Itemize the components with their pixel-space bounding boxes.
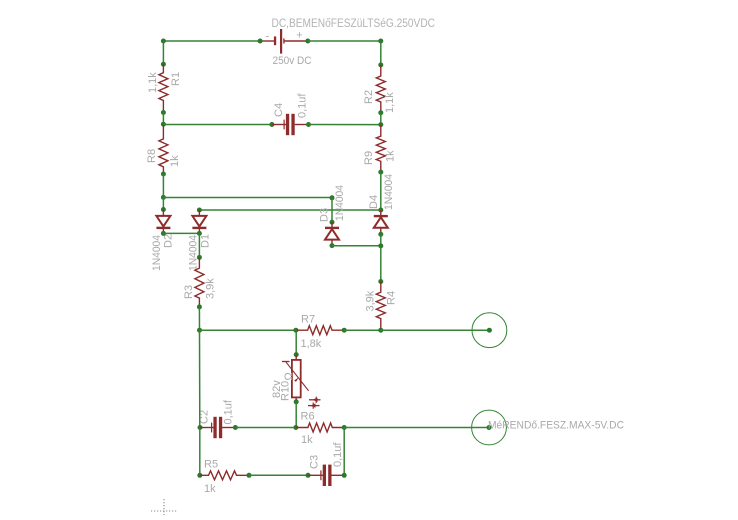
capacitor C3 pins [308,474,344,476]
wire R10 top [295,330,297,354]
diode D2 [156,216,170,229]
svg-text:1k: 1k [385,150,397,162]
wire top-right horizontal [308,40,381,42]
label D2 name [163,234,175,248]
wire R3 to R7 row [198,307,200,330]
wire left rail to C4 row [162,113,164,125]
junction D2 bottom pin [161,231,166,236]
junction battery right pin [305,39,310,44]
svg-text:0,1uf: 0,1uf [223,399,235,424]
wire D1-top to D4-top [199,209,380,211]
junction D2 top pin [161,207,166,212]
wire D3 column upper [331,198,333,222]
resistor R6 [296,423,344,432]
label C4 name [273,103,285,117]
varistor R10 adjust arrows [308,397,321,409]
svg-text:Ω: Ω [283,372,295,380]
label R6 value 1k [301,434,313,446]
label measured voltage text [488,420,624,432]
svg-text:1N4004: 1N4004 [188,235,200,271]
junction D4 top node [378,208,383,213]
wire C2 to R10 node [235,427,296,429]
wire left rail upper [162,41,164,64]
junction C4 right pin [306,122,311,127]
svg-text:1k: 1k [169,155,181,167]
capacitor C3 [321,465,332,486]
wire bottom row middle [249,474,308,476]
battery plus label [296,30,302,42]
label R8 name [146,149,158,163]
label R2 value 1,1k [384,92,396,113]
junction D1 bottom pin [197,231,202,236]
svg-text:0,1uf: 0,1uf [332,442,344,467]
svg-text:1k: 1k [301,434,313,446]
capacitor C2 pins [200,427,235,429]
label R9 value 1k [385,150,397,162]
resistor R7 [296,326,344,335]
svg-text:1,1k: 1,1k [384,92,396,113]
label C2 value 0,1uf [223,399,235,424]
label R4 name [386,291,398,305]
junction R10 bottom pin [294,399,299,404]
label D4 part 1N4004 [383,174,395,210]
junction R4 bottom node [378,328,383,333]
wire left rail below R8 [162,174,164,197]
resistor R2 [376,65,385,113]
svg-text:250v DC: 250v DC [273,55,312,67]
label R10 name [280,381,292,401]
junction C4 left pin [269,122,274,127]
diode D1 pins [198,210,200,233]
junction C3 left pin [306,473,311,478]
junction R9 bottom pin [378,170,383,175]
wire R6 row to connector [344,427,489,429]
label D1 name [200,234,212,248]
label D2 part 1N4004 [151,235,163,271]
wire right rail below R9 [380,172,382,210]
junction R10 top node [293,328,298,333]
wire R10 bottom [295,402,297,428]
resistor R1 [159,64,168,112]
label R10 value 82v [271,380,283,398]
junction battery left pin [258,39,263,44]
label D3 name [319,208,331,222]
label R8 value 1k [169,155,181,167]
battery B1 250v DC [260,29,308,54]
junction R5 right pin [247,473,252,478]
label R3 value 3,9k [205,278,217,299]
junction bottom-row left corner [197,473,202,478]
wire C4 row left [163,124,272,126]
label R7 name [301,314,315,326]
connector pad output-2 [472,410,507,445]
wire D2-D1 bottoms [163,232,199,234]
svg-text:0,1uf: 0,1uf [297,93,309,118]
label R6 name [301,411,315,423]
svg-text:1N4004: 1N4004 [334,185,346,221]
diode D3 pins [331,222,333,245]
junction C2 right pin [233,425,238,430]
label D3 part 1N4004 [334,185,346,221]
junction R10 bottom node [293,425,298,430]
label D1 part 1N4004 [188,235,200,271]
svg-text:R6: R6 [301,411,315,423]
diode D2 pins [162,210,164,234]
resistor R5 [200,471,249,480]
junction D3 top node [330,195,335,200]
label R7 value 1,8k [301,338,322,350]
resistor R3 [195,257,204,307]
wire right rail upper [380,41,382,65]
svg-text:1,1k: 1,1k [147,72,159,93]
label R4 value 3,9k [365,290,377,311]
wire node left to D3 [163,197,332,199]
junction R2 top pin [378,62,383,67]
label R5 value 1k [204,483,216,495]
junction R2 bottom pin [378,110,383,115]
connector pad output-1 [472,313,507,348]
junction R4 top pin [378,279,383,284]
junction R7 right pin [342,328,347,333]
label C3 value 0,1uf [332,442,344,467]
svg-text:C4: C4 [273,103,285,117]
wire D1 bottom to R3 [198,233,200,257]
wire R7 row left [200,329,296,331]
svg-text:R3: R3 [183,285,195,299]
svg-text:-: - [266,31,270,43]
svg-text:+: + [296,30,302,42]
wire D3 bottom to right rail [332,245,381,247]
junction top-left corner [161,39,166,44]
label C2 name [199,410,211,424]
junction right C4-row corner [378,122,383,127]
junction node left-D3 wire [161,195,166,200]
svg-text:R10: R10 [280,381,292,401]
capacitor C2 [212,417,223,438]
svg-text:1N4004: 1N4004 [151,235,163,271]
junction top-right corner [378,39,383,44]
diode D4 pins [380,210,382,234]
wire left rail to D2 [162,197,164,209]
svg-text:3,9k: 3,9k [205,278,217,299]
label R5 name [204,459,218,471]
junction R1 top pin [161,62,166,67]
junction D4-D3 node [378,243,383,248]
junction left C4-row corner [161,122,166,127]
resistor R9 [376,125,385,173]
wire right rail to R4 [380,246,382,282]
battery minus label [266,31,270,43]
svg-text:DC,BEMENőFESZüLTSéG.250VDC: DC,BEMENőFESZüLTSéG.250VDC [272,16,436,30]
wire right rail to C4 row [380,113,382,125]
label D4 name [368,195,380,209]
wire D4 to D3-junction [380,234,382,246]
junction R3 top pin [197,255,202,260]
svg-text:D1: D1 [200,234,212,248]
diode D4 [374,215,388,228]
svg-text:R9: R9 [363,151,375,165]
junction C2 left pin [198,425,203,430]
junction D3 anode node [330,220,335,225]
svg-text:R1: R1 [170,72,182,86]
wire R6-node down [343,428,345,476]
svg-text:D3: D3 [319,208,331,222]
svg-text:1,8k: 1,8k [301,338,322,350]
label C3 name [309,455,321,469]
label R10 ohm glyph [283,372,295,380]
svg-text:C2: C2 [199,410,211,424]
svg-text:R8: R8 [146,149,158,163]
capacitor C4 [284,114,295,135]
label R9 name [363,151,375,165]
diode D1 [192,216,206,229]
wire left rail C2row-bottom [199,428,201,476]
wire R7 row middle [344,329,381,331]
svg-text:D2: D2 [163,234,175,248]
junction D4 bottom pin [378,232,383,237]
wire C4 row right [309,124,381,126]
junction C3 right pin [342,473,347,478]
label R2 name [363,90,375,104]
svg-text:3,9k: 3,9k [365,290,377,311]
title text DC input voltage [272,16,436,30]
wire R7 row to connector [381,329,490,331]
junction R7-row left corner [197,328,202,333]
capacitor C4 pins [272,124,309,126]
resistor R8 [159,124,168,174]
svg-text:1N4004: 1N4004 [383,174,395,210]
svg-text:1k: 1k [204,483,216,495]
label R3 name [183,285,195,299]
svg-text:MéRENDő.FESZ.MAX-5V.DC: MéRENDő.FESZ.MAX-5V.DC [488,420,624,432]
svg-text:D4: D4 [368,195,380,209]
label R1 name [170,72,182,86]
junction connector-1 center [487,328,492,333]
junction R1 bottom pin [161,110,166,115]
junction connector-2 center [487,425,492,430]
resistor R4 [376,282,385,331]
diode D3 [325,227,339,240]
junction R3 bottom pin [197,304,202,309]
junction R10 top pin [294,352,299,357]
svg-text:R5: R5 [204,459,218,471]
svg-text:C3: C3 [309,455,321,469]
junction R6 right pin [342,425,347,430]
junction R8 bottom pin [161,172,166,177]
label C4 value 0,1uf [297,93,309,118]
origin cross marker [151,499,178,515]
svg-text:R2: R2 [363,90,375,104]
varistor R10 [282,355,309,402]
battery value 250v DC [273,55,312,67]
wire left rail R7row-C2row [199,330,201,427]
junction D1 top pin [197,208,202,213]
junction D3 bottom pin [330,243,335,248]
svg-text:R4: R4 [386,291,398,305]
label R1 value 1,1k [147,72,159,93]
svg-text:R7: R7 [301,314,315,326]
wire top-left horizontal [163,40,260,42]
